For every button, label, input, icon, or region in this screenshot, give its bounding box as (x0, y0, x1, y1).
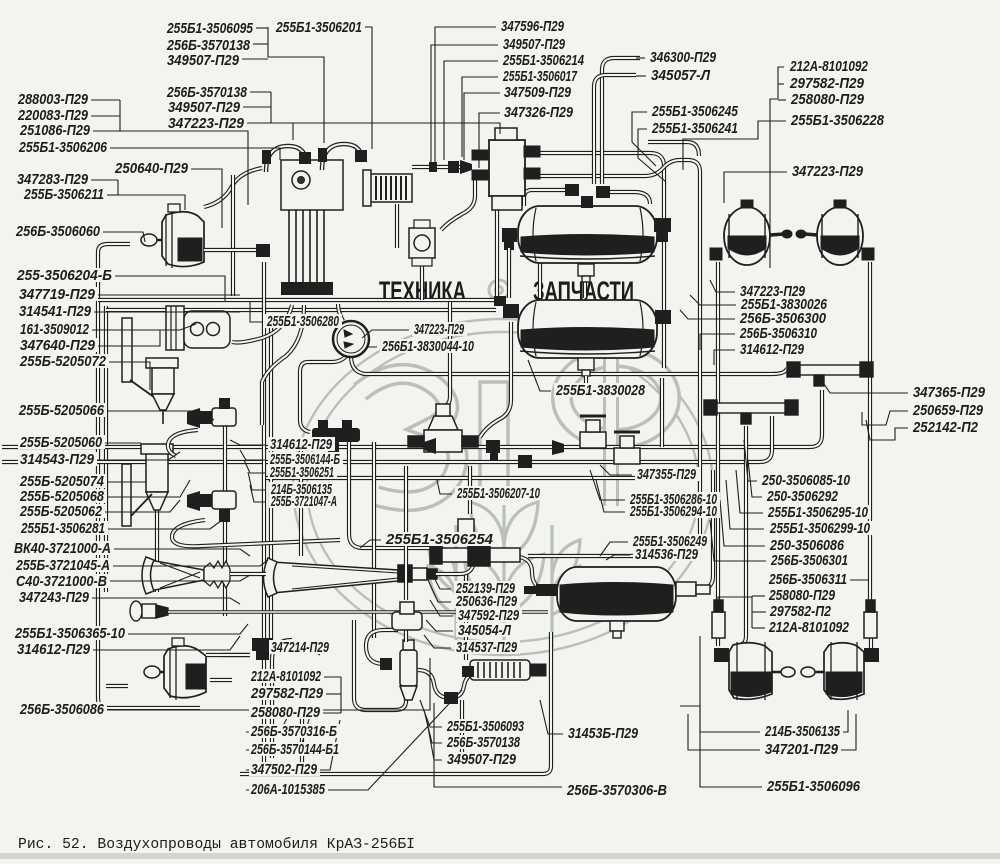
svg-text:212А-8101092: 212А-8101092 (768, 619, 849, 636)
label 255Б1-3506281 (19, 521, 108, 535)
leader 212A drop (770, 99, 778, 268)
label 252139-П29 (454, 581, 518, 595)
leader 251086 (92, 130, 120, 132)
wire (104, 306, 108, 592)
label 256Б-3506300 (738, 311, 829, 325)
svg-text:258080-П29: 258080-П29 (250, 704, 320, 721)
label 250659-П29 (911, 403, 986, 417)
wire (262, 305, 304, 425)
svg-text:349507-П29: 349507-П29 (503, 36, 565, 53)
leader 345054 (426, 620, 453, 631)
label 255Б1-3506294-10 (628, 504, 720, 518)
label 255Б-3506144-Б (268, 452, 343, 466)
watermark letter Ф (562, 357, 670, 439)
leader 347640 (97, 330, 160, 346)
leader bracket group2 (271, 92, 500, 134)
label 255Б-5205072 (18, 354, 109, 368)
leader 314541 (93, 311, 240, 313)
leader 3506365 (127, 624, 248, 634)
flex hose right (322, 144, 362, 170)
label 258080-П29 (249, 705, 323, 719)
svg-text:255Б1-3506280: 255Б1-3506280 (266, 313, 339, 330)
leader 161-3509012 (91, 324, 196, 330)
leader 250-085 (744, 440, 757, 481)
label 255Б1-3506228 (789, 113, 887, 127)
leader 5205074 (106, 470, 146, 482)
label 314612-П29 (15, 642, 93, 656)
wire (232, 305, 292, 343)
label 347365-П29 (911, 385, 988, 399)
svg-text:206А-1015385: 206А-1015385 (250, 781, 325, 798)
label 347719-П29 (17, 287, 98, 301)
wire (299, 442, 303, 556)
label 347326-П29 (502, 105, 576, 119)
leader 258080 (778, 99, 786, 101)
label 256Б-3506311 (767, 572, 850, 586)
leader 347223-rm (710, 280, 735, 292)
leader 250636 (428, 580, 451, 602)
wire (354, 620, 406, 710)
wire (507, 248, 511, 298)
svg-text:256Б-3506086: 256Б-3506086 (19, 701, 104, 718)
bottom-right brake chamber 2 (801, 642, 864, 700)
svg-text:255Б1-3506214: 255Б1-3506214 (502, 52, 584, 69)
reservoir 1 (518, 206, 657, 263)
leader 252142 (866, 420, 908, 440)
svg-text:255Б1-3506254: 255Б1-3506254 (385, 531, 494, 548)
svg-text:252142-П2: 252142-П2 (912, 419, 978, 436)
svg-text:255Б-3721045-А: 255Б-3721045-А (15, 557, 110, 574)
reservoir 3 right fitting (676, 582, 710, 596)
svg-text:214Б-3506135: 214Б-3506135 (764, 723, 840, 740)
wire (172, 520, 340, 546)
svg-text:258080-П29: 258080-П29 (768, 587, 835, 604)
label 252142-П2 (911, 420, 981, 434)
leader 3506144 (240, 450, 265, 460)
leader 297582-b (325, 693, 341, 695)
leader 3506093-b (420, 700, 442, 727)
label 297582-П2 (768, 604, 834, 618)
leader 3506301 (710, 520, 766, 561)
svg-text:349507-П29: 349507-П29 (167, 52, 240, 69)
label 347223-П29 (412, 322, 467, 336)
svg-text:255Б1-3506096: 255Б1-3506096 (766, 778, 860, 795)
wire (740, 426, 746, 645)
leader 5205068 (106, 480, 190, 497)
svg-text:Рис. 52. Воздухопроводы автомо: Рис. 52. Воздухопроводы автомобиля КрАЗ-… (18, 836, 415, 853)
label 220083-П29 (16, 108, 91, 122)
wire (868, 262, 872, 610)
wire (441, 172, 475, 230)
svg-text:297582-П29: 297582-П29 (789, 75, 864, 92)
svg-text:347223-П29: 347223-П29 (414, 321, 464, 338)
leader 346300 (636, 57, 645, 59)
svg-text:347509-П29: 347509-П29 (504, 84, 572, 101)
brake valve assembly top-left body (281, 160, 343, 210)
label 255Б1-3506280 (265, 314, 342, 328)
label 314612-П29 (738, 342, 807, 356)
svg-text:314537-П29: 314537-П29 (456, 639, 517, 656)
leader 314543 (96, 452, 180, 460)
safety valve 345054 (392, 602, 422, 630)
leader 347223-c (362, 330, 409, 338)
leader 347201 (688, 714, 760, 750)
svg-text:255Б1-3506201: 255Б1-3506201 (275, 19, 362, 36)
top-right brake chamber 1 (710, 200, 792, 265)
brake chamber 3506086 side view (144, 638, 206, 700)
label 255Б1-3830026 (739, 297, 830, 311)
leader 347326 (479, 113, 500, 168)
wire (395, 204, 399, 248)
leader 250640 (190, 169, 222, 228)
cone union y447 x556 (552, 440, 564, 455)
svg-text:297582-П29: 297582-П29 (250, 685, 323, 702)
svg-text:347223-П29: 347223-П29 (792, 163, 864, 180)
leader 258080-r (752, 595, 765, 597)
leader 3506281 (107, 520, 222, 529)
leader 3506251 (244, 460, 265, 473)
svg-text:250-3506085-10: 250-3506085-10 (761, 472, 850, 489)
wire (536, 153, 664, 220)
label 214Б-3506135 (763, 724, 843, 738)
wire (223, 423, 227, 616)
svg-text:256Б-3506060: 256Б-3506060 (15, 223, 100, 240)
svg-text:297582-П2: 297582-П2 (769, 603, 831, 620)
shutoff valve 1 (580, 416, 606, 448)
hose fitting c (462, 666, 474, 677)
label 347223-П29 (166, 116, 247, 130)
label 347243-П29 (17, 590, 92, 604)
wire (272, 640, 292, 758)
svg-text:255Б1-3506017: 255Б1-3506017 (502, 68, 577, 85)
reservoir 2 left elbow (494, 296, 519, 318)
leader 258080 bracket (751, 596, 753, 628)
leader 5205066 (106, 411, 214, 420)
cone union y447 x428 (424, 438, 436, 454)
wire (366, 630, 398, 664)
wire (98, 252, 200, 708)
label 349507-П29 (445, 752, 519, 766)
label 255Б-5205066 (17, 403, 107, 417)
wire (230, 572, 266, 576)
svg-text:314536-П29: 314536-П29 (635, 546, 698, 563)
leader 255-3506204 (114, 276, 225, 302)
leader 297582 (778, 83, 784, 85)
leader 3506228 (683, 121, 786, 170)
svg-text:345057-Л: 345057-Л (651, 67, 711, 84)
svg-text:288003-П29: 288003-П29 (17, 91, 88, 108)
air horn (264, 558, 438, 597)
label 314543-П29 (18, 452, 97, 466)
label 256Б-3570138 (165, 85, 250, 99)
leader 3506017 (462, 77, 498, 157)
label 250-3506086 (768, 538, 847, 552)
label 314537-П29 (454, 640, 520, 654)
leader 3506096 (700, 636, 762, 787)
shutoff valve 2 (614, 432, 640, 464)
union fitting y447 x488 (486, 440, 500, 461)
label 255Б1-3506096 (765, 779, 863, 793)
label 255Б1-3506365-10 (13, 626, 128, 640)
bottom scan edge (0, 853, 1000, 859)
label 255Б1-3506251 (268, 465, 337, 479)
leader 349507 (242, 58, 268, 60)
svg-text:161-3509012: 161-3509012 (20, 321, 90, 338)
air filter bottom (400, 640, 417, 700)
label 255Б1-3506299-10 (768, 521, 873, 535)
leader 212A bracket (778, 67, 784, 99)
wire (204, 248, 256, 252)
svg-text:314541-П29: 314541-П29 (19, 303, 92, 320)
reservoir 2 drain valve (578, 358, 594, 376)
leader 3721047 (250, 485, 266, 502)
leader 3506086 (106, 658, 430, 710)
wire (404, 466, 408, 600)
fitting cones on left feed pipe (429, 160, 472, 174)
wire (418, 670, 478, 698)
label 255Б1-3830028 (554, 383, 648, 397)
leader 347365 (820, 378, 908, 393)
reservoir 3 left fitting (524, 584, 558, 596)
svg-text:255Б1-3506241: 255Б1-3506241 (651, 120, 738, 137)
label 288003-П29 (16, 92, 91, 106)
hose fitting a (380, 658, 392, 670)
svg-text:347502-П29: 347502-П29 (251, 761, 318, 778)
wire (269, 314, 273, 640)
leader 31453 (540, 700, 563, 734)
wire (648, 142, 699, 156)
label 349507-П29 (165, 53, 242, 67)
svg-text:255Б-5205062: 255Б-5205062 (19, 503, 102, 520)
reservoir 3 (557, 567, 676, 621)
wire (468, 466, 472, 514)
leader 3506295 (736, 470, 763, 513)
svg-text:347223-П29: 347223-П29 (168, 115, 245, 132)
svg-text:347719-П29: 347719-П29 (19, 286, 96, 303)
wire (372, 442, 376, 638)
label 345057-Л (649, 68, 713, 82)
label 255Б-5205068 (18, 489, 107, 503)
svg-text:255Б-5205066: 255Б-5205066 (18, 402, 104, 419)
leader 250-086 (720, 500, 765, 546)
wire (2, 390, 822, 447)
pedal bar 2 (122, 464, 152, 526)
wire (716, 262, 720, 646)
leader 5205072 (107, 362, 150, 390)
leader 250-292 (748, 460, 762, 497)
svg-text:31453Б-П29: 31453Б-П29 (568, 725, 639, 742)
svg-text:С40-3721000-В: С40-3721000-В (16, 573, 107, 590)
wire (106, 684, 128, 688)
leader 314612-c (230, 440, 265, 445)
bellows fitting (204, 561, 230, 588)
reservoir 1 drain valve (578, 264, 594, 282)
leader 314536 (606, 555, 630, 560)
label 256Б-3570306-В (565, 783, 670, 797)
svg-text:347326-П29: 347326-П29 (504, 104, 574, 121)
watermark letter I (480, 382, 508, 488)
label 256Б-3570138 (445, 735, 523, 749)
wire (264, 262, 274, 774)
label 256Б-3570316-Б (249, 724, 340, 738)
ribbed cylinder bottom (470, 660, 546, 680)
svg-text:256Б-3570306-В: 256Б-3570306-В (566, 782, 667, 799)
svg-text:255Б1-3506365-10: 255Б1-3506365-10 (14, 625, 125, 642)
svg-text:347640-П29: 347640-П29 (20, 337, 96, 354)
leader 347283 (90, 179, 118, 181)
svg-text:255Б1-3506095: 255Б1-3506095 (166, 20, 253, 37)
leader 347509 (464, 93, 500, 160)
wire (338, 304, 343, 321)
label 255Б1-3506017 (501, 69, 580, 83)
right tee assembly upper (787, 362, 873, 386)
label 256Б-3506060 (14, 224, 103, 238)
svg-text:255Б1-3506281: 255Б1-3506281 (20, 520, 105, 537)
needle valve 3506365 (130, 601, 168, 621)
leader 314612-l (92, 636, 240, 650)
label 161-3509012 (18, 322, 92, 336)
leader 349507-m (431, 45, 498, 164)
leader 3506254 (360, 540, 381, 548)
leader 3506201 (358, 27, 372, 149)
label 255Б1-3506286-10 (628, 492, 720, 506)
wire (436, 566, 473, 574)
leader 347355 (600, 465, 632, 475)
watermark gear icon (489, 280, 509, 300)
svg-text:255Б1-3506245: 255Б1-3506245 (651, 103, 738, 120)
wire (98, 244, 130, 252)
label 255Б1-3506295-10 (766, 505, 871, 519)
wire (265, 476, 693, 480)
label 256Б-3506301 (769, 553, 851, 567)
label 255Б-5205062 (18, 504, 105, 518)
label 346300-П29 (648, 50, 719, 64)
leader branch elbow (292, 123, 294, 140)
wire (606, 192, 650, 204)
label 255Б1-3506095 (165, 21, 256, 35)
tee assembly 1 with cones (187, 408, 212, 428)
wire (302, 712, 312, 774)
wire (206, 653, 250, 657)
label 314612-П29 (268, 437, 335, 451)
wire (460, 700, 464, 766)
svg-text:255Б1-3506093: 255Б1-3506093 (446, 718, 524, 735)
elbow 347214 (252, 638, 272, 660)
top-right brake chamber 2 (796, 200, 874, 265)
leader bracket 347283 (118, 180, 185, 210)
wire (240, 632, 551, 774)
svg-text:347355-П29: 347355-П29 (637, 466, 696, 483)
leader 288003 (90, 99, 120, 101)
union fitting y462 x524 (518, 455, 532, 468)
label 206А-1015385 (249, 782, 328, 796)
svg-text:347201-П29: 347201-П29 (765, 741, 839, 758)
label 255Б1-3506206 (17, 140, 110, 154)
leader 258080 link (718, 597, 752, 610)
label 347592-П29 (456, 608, 522, 622)
leader 250659 (862, 411, 908, 425)
label 255Б1-3506245 (650, 104, 741, 118)
svg-text:255Б1-3506228: 255Б1-3506228 (790, 112, 884, 129)
leader 5205060 (104, 442, 141, 444)
svg-text:251086-П29: 251086-П29 (19, 122, 90, 139)
label 347596-П29 (499, 19, 567, 33)
brake crane 5205072 upper (146, 358, 178, 424)
svg-text:255Б1-3506251: 255Б1-3506251 (269, 464, 334, 481)
wire (98, 298, 505, 302)
label 250-3506292 (765, 489, 841, 503)
svg-text:347243-П29: 347243-П29 (19, 589, 90, 606)
svg-text:345054-Л: 345054-Л (458, 622, 512, 639)
label 250636-П29 (454, 594, 520, 608)
label 212А-8101092 (788, 59, 871, 73)
label 255Б-3506211 (22, 187, 107, 201)
wire (106, 308, 496, 312)
hose fitting b (444, 692, 458, 704)
svg-text:256Б-3570316-Б: 256Б-3570316-Б (250, 723, 337, 740)
label 256Б-3570138 (165, 38, 253, 52)
leader 3506095 (254, 27, 268, 29)
svg-text:255Б1-3506294-10: 255Б1-3506294-10 (629, 503, 717, 520)
wire (660, 378, 664, 447)
leader 3506300 (680, 310, 735, 319)
leader 3570316 (246, 712, 290, 732)
label 255Б1-3506241 (650, 121, 741, 135)
label 347223-П29 (790, 164, 866, 178)
reservoir 1 right elbow (654, 218, 671, 242)
leader 314537 (424, 635, 451, 648)
brake crane 255Б-5205072 (141, 444, 173, 510)
right pipe end fitting (864, 600, 877, 638)
reservoir 2 right elbow (655, 310, 671, 324)
wire (583, 262, 587, 298)
flex hose left (266, 146, 306, 172)
label 31453Б-П29 (566, 726, 641, 740)
leader 220083 (90, 115, 120, 117)
wire (420, 266, 424, 300)
leader 3506241 (638, 129, 666, 182)
svg-text:212А-8101092: 212А-8101092 (789, 58, 868, 75)
elbow fitting x264 (256, 244, 270, 257)
wire (443, 302, 450, 406)
hand brake lever unit (122, 306, 230, 400)
label ВК40-3721000-А (12, 541, 114, 555)
leader 347596 (435, 27, 496, 162)
left pipe end fitting (712, 600, 725, 638)
label 256Б-3570144-Б1 (249, 742, 342, 756)
bottom-right brake chamber 1 (729, 642, 795, 700)
wire (495, 210, 499, 300)
svg-text:256Б1-3830044-10: 256Б1-3830044-10 (381, 338, 474, 355)
wire (349, 442, 430, 548)
svg-text:255Б-5205072: 255Б-5205072 (19, 353, 106, 370)
leader 345057 (636, 75, 646, 77)
wire (168, 430, 198, 456)
label 255Б-3721045-А (14, 558, 113, 572)
leader 349507-b (426, 716, 442, 760)
svg-text:255Б-5205060: 255Б-5205060 (19, 434, 102, 451)
leader 297582-r (752, 611, 766, 613)
wire (584, 376, 588, 396)
leader 2146-r2 (822, 710, 848, 732)
leader 252139 (430, 570, 451, 589)
leader 347243 (91, 598, 240, 604)
leader 3506280 (250, 302, 263, 322)
svg-text:ВК40-3721000-А: ВК40-3721000-А (14, 540, 111, 557)
svg-text:256Б-3570144-Б1: 256Б-3570144-Б1 (250, 741, 339, 758)
svg-text:255Б1-3506207-10: 255Б1-3506207-10 (456, 485, 540, 502)
pressure gauge (333, 321, 369, 357)
